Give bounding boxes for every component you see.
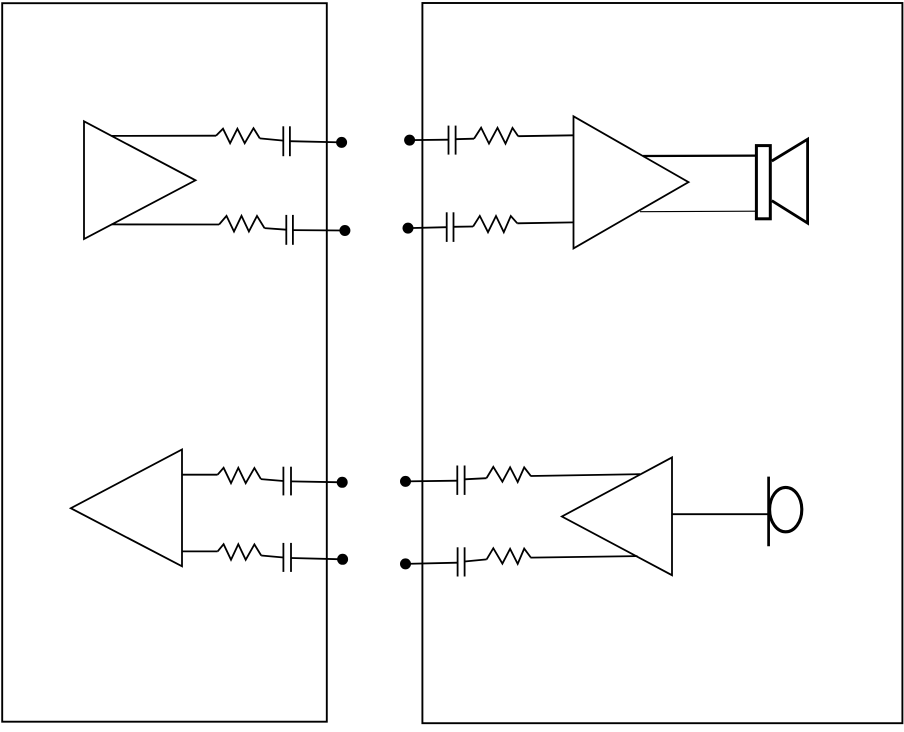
wire U3 top input to R5 xyxy=(182,474,218,476)
wire node R3 to C7 xyxy=(406,480,458,483)
node R4 (junction dot) xyxy=(400,558,411,569)
microphone MIC1 bar xyxy=(767,477,770,547)
op-amp U3 (bottom-left, pointing left) xyxy=(71,450,182,567)
resistor R1 xyxy=(216,128,260,143)
capacitor C1 xyxy=(282,126,284,156)
op-amp U4 (bottom-right, pointing left) xyxy=(562,457,672,575)
wire R2 to C2 xyxy=(265,228,287,230)
capacitor C2 xyxy=(285,215,287,245)
wire R6 to C6 xyxy=(261,556,283,558)
resistor R8 xyxy=(487,548,531,564)
wire R4 to U2 input xyxy=(517,221,573,224)
resistor R4 xyxy=(473,216,517,232)
wire C4 to R4 xyxy=(454,226,474,228)
wire C6 to node L4 xyxy=(291,558,343,559)
wire R1 to C1 xyxy=(260,138,284,140)
wire R7 to U4 input xyxy=(530,474,640,476)
op-amp U2 (top-right, pointing right) xyxy=(574,116,689,248)
wire U2 to speaker bottom xyxy=(640,210,756,213)
wire U3 bottom input to R6 xyxy=(182,550,218,552)
wire C1 to node L1 xyxy=(290,141,342,142)
wire node R2 to C4 xyxy=(408,226,447,229)
wire R3 to U2 input xyxy=(518,134,573,137)
resistor R6 xyxy=(218,544,262,560)
capacitor C6 xyxy=(282,543,284,572)
wire R8 to U4 input xyxy=(530,556,637,558)
speaker LS1 body xyxy=(756,146,770,219)
node L1 (junction dot) xyxy=(336,137,347,148)
wire C8 to R8 xyxy=(465,559,487,561)
wire node R1 to C3 xyxy=(410,139,449,141)
resistor R7 xyxy=(487,467,531,482)
capacitor C7 xyxy=(456,466,458,495)
op-amp U1 (top-left, pointing right) xyxy=(84,121,196,239)
microphone MIC1 capsule xyxy=(770,487,802,531)
wire R5 to C5 xyxy=(261,479,284,481)
capacitor C5 xyxy=(282,467,284,496)
node R1 (junction dot) xyxy=(404,135,415,146)
capacitor C4 xyxy=(446,212,448,242)
resistor R2 xyxy=(219,216,264,232)
wire C2 to node L2 xyxy=(293,229,345,231)
node L2 (junction dot) xyxy=(339,225,350,236)
right box (far-end unit) xyxy=(422,3,902,723)
wire C5 to node L3 xyxy=(291,480,342,483)
wire U1 top output to R1 xyxy=(112,135,217,137)
wire U2 to speaker top xyxy=(643,155,756,158)
wire C7 to R7 xyxy=(465,478,487,479)
resistor R5 xyxy=(218,468,261,483)
node R3 (junction dot) xyxy=(400,476,411,487)
capacitor C3 xyxy=(448,126,450,155)
wire U4 to microphone xyxy=(672,513,769,515)
node L3 (junction dot) xyxy=(337,477,348,488)
node R2 (junction dot) xyxy=(403,223,414,234)
resistor R3 xyxy=(474,128,518,144)
speaker LS1 horn xyxy=(772,139,808,223)
wire C3 to R3 xyxy=(456,138,474,141)
capacitor C8 xyxy=(457,547,459,576)
wire node R4 to C8 xyxy=(406,563,458,564)
wire U1 bottom output to R2 xyxy=(111,223,219,225)
node L4 (junction dot) xyxy=(337,554,348,565)
left box (near-end unit) xyxy=(2,3,327,722)
